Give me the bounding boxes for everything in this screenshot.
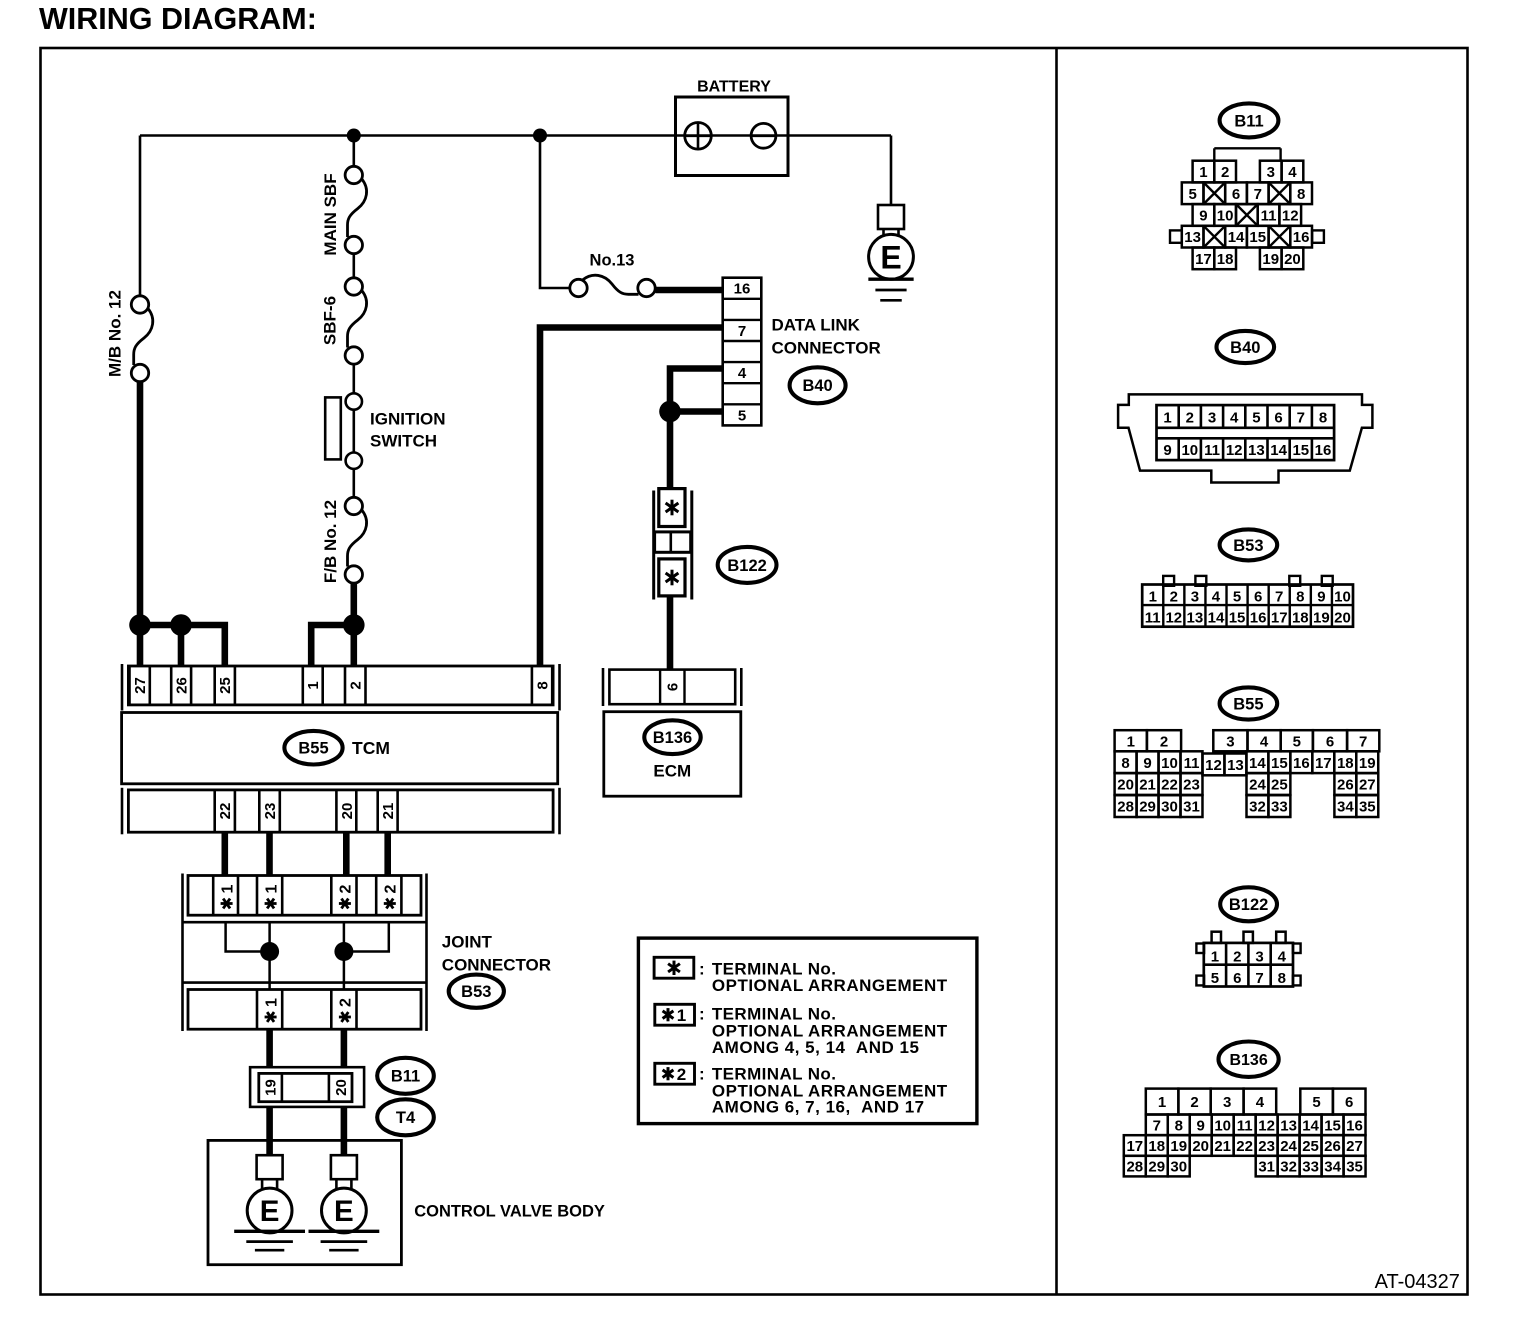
svg-text:34: 34 [1337,799,1354,816]
wire: bus to No.13 fuse [540,136,570,289]
svg-text:8: 8 [1319,409,1327,426]
svg-text:3: 3 [1226,733,1234,750]
svg-text:2: 2 [1186,409,1194,426]
svg-text:7: 7 [738,323,746,340]
svg-text:23: 23 [1258,1138,1275,1155]
fuse F/B No. 12 [321,497,366,583]
fuse No.13 [570,252,655,297]
svg-text:WIRING DIAGRAM:: WIRING DIAGRAM: [39,2,317,36]
svg-text:16: 16 [1315,442,1332,459]
wires: joint connector to B11 (thick) [270,1029,344,1068]
svg-text:26: 26 [1324,1138,1341,1155]
svg-text:16: 16 [1346,1117,1363,1134]
svg-text:7: 7 [1275,588,1283,605]
svg-text:20: 20 [1192,1138,1209,1155]
svg-text:CONNECTOR: CONNECTOR [772,339,881,358]
svg-text:B136: B136 [1229,1052,1267,1069]
connector B136 pin layout [1124,1089,1366,1177]
svg-text:32: 32 [1280,1159,1297,1176]
svg-text:7: 7 [1153,1117,1161,1134]
svg-text:BATTERY: BATTERY [697,79,771,96]
svg-text:8: 8 [1175,1117,1183,1134]
svg-text:27: 27 [1346,1138,1363,1155]
svg-text:18: 18 [1217,251,1234,268]
svg-text:No.13: No.13 [590,252,635,270]
svg-text:2: 2 [1170,588,1178,605]
svg-text:25: 25 [1302,1138,1319,1155]
svg-text:20: 20 [1334,610,1351,627]
svg-text:3: 3 [1255,949,1263,966]
designator B11 (pin layout) [1220,103,1279,137]
node: junction pin27 feed [129,614,151,636]
svg-text:24: 24 [1249,777,1266,794]
node: junction pin2 feed [343,614,365,636]
svg-text:10: 10 [1181,442,1198,459]
designator B136 (pin layout) [1219,1042,1279,1077]
svg-text:16: 16 [1293,229,1310,246]
svg-text:AMONG 4, 5, 14 AND 15: AMONG 4, 5, 14 AND 15 [712,1038,920,1057]
designator B55 (pin layout) [1220,687,1278,719]
svg-text:F/B No. 12: F/B No. 12 [321,500,340,583]
svg-text:21: 21 [1214,1138,1231,1155]
svg-text:8: 8 [1296,588,1304,605]
svg-text:26: 26 [174,677,191,694]
svg-text:12: 12 [1205,757,1222,774]
svg-text:23: 23 [262,803,279,820]
svg-text:B55: B55 [1233,695,1263,713]
svg-text:15: 15 [1271,755,1288,772]
wire: F/B fuse to TCM pins 1/2 (thick) [311,583,354,666]
designator B122 [718,547,777,583]
svg-text:21: 21 [380,803,397,820]
wire: battery positive bus [140,134,891,137]
connector B53 pin layout [1142,576,1353,627]
svg-text:19: 19 [1313,610,1330,627]
svg-text:12: 12 [1165,610,1182,627]
svg-text:TCM: TCM [352,738,390,758]
svg-text:1: 1 [263,998,280,1007]
wires: TCM bottom to joint connector (thick) [225,832,388,876]
svg-text:20: 20 [1117,777,1134,794]
wire: bus to MAIN SBF [352,136,355,167]
svg-text:IGNITION: IGNITION [370,410,446,429]
svg-text:3: 3 [1208,409,1216,426]
svg-text:13: 13 [1280,1117,1297,1134]
svg-text:10: 10 [1214,1117,1231,1134]
svg-text:30: 30 [1170,1159,1187,1176]
svg-text:17: 17 [1195,251,1212,268]
svg-text:20: 20 [333,1079,350,1096]
ground bulb E (battery return) [868,205,913,300]
wire: B122 to ECM pin 6 (thick) [667,596,674,670]
designator B55 [284,731,342,765]
svg-text:28: 28 [1126,1159,1143,1176]
svg-text:B53: B53 [461,983,491,1001]
control valve body box [208,1140,605,1264]
svg-text:31: 31 [1183,799,1200,816]
battery [676,79,789,176]
svg-text:5: 5 [1252,409,1260,426]
connector B11 pin layout [1170,148,1324,269]
svg-text:25: 25 [217,677,234,694]
svg-text:29: 29 [1148,1159,1165,1176]
connector B122 inline [654,489,692,600]
svg-text:5: 5 [1188,186,1196,203]
wire: SBF-6 to ignition switch [352,365,355,394]
svg-text:9: 9 [1143,755,1151,772]
svg-text:DATA LINK: DATA LINK [772,316,861,335]
connector B11/T4 row (pins 19 20) [250,1067,364,1107]
svg-text:32: 32 [1249,799,1266,816]
svg-text:21: 21 [1139,777,1156,794]
svg-text:11: 11 [1184,755,1200,772]
svg-text:11: 11 [1204,442,1220,459]
wire: DLC pin 7 / TCM pin 8 (thick) [540,328,723,667]
svg-text:29: 29 [1139,799,1156,816]
connector B40 pin layout [1118,394,1372,482]
svg-text:23: 23 [1183,777,1200,794]
designator B11 [377,1058,434,1094]
wire: DLC pin 4 to pin 5 / B122 (thick) [670,369,723,412]
designator T4 [377,1099,434,1135]
svg-text::: : [699,1065,705,1084]
svg-text:2: 2 [338,998,355,1007]
svg-text:12: 12 [1226,442,1243,459]
svg-text:6: 6 [1274,409,1282,426]
fuse MAIN SBF [321,166,366,255]
svg-text:E: E [880,239,901,275]
svg-text:B40: B40 [802,377,832,395]
svg-text:5: 5 [1312,1094,1320,1111]
svg-text:3: 3 [1191,588,1199,605]
svg-text:1: 1 [677,1006,686,1025]
svg-text:7: 7 [1254,186,1262,203]
svg-text:35: 35 [1346,1159,1363,1176]
svg-text:B53: B53 [1233,537,1263,555]
svg-text:22: 22 [217,803,234,820]
svg-text:12: 12 [1258,1117,1275,1134]
svg-text:30: 30 [1161,799,1178,816]
svg-text:19: 19 [1359,755,1376,772]
wire: ignition switch to F/B No.12 [352,469,355,497]
svg-text:35: 35 [1359,799,1376,816]
ECM box [604,712,741,797]
svg-text:2: 2 [1190,1094,1198,1111]
svg-text:6: 6 [1232,186,1240,203]
svg-text:13: 13 [1248,442,1265,459]
svg-text:4: 4 [1278,949,1287,966]
svg-text:31: 31 [1258,1159,1275,1176]
svg-text:4: 4 [1256,1094,1265,1111]
svg-text::: : [699,1004,705,1023]
svg-text:TERMINAL No.: TERMINAL No. [712,1004,836,1023]
svg-text:3: 3 [1223,1094,1231,1111]
fuse M/B No. 12 [106,290,153,382]
svg-text:25: 25 [1271,777,1288,794]
designator B136 [644,720,700,754]
wire: battery negative to bulb [890,136,893,206]
svg-text:12: 12 [1282,208,1299,225]
svg-text:2: 2 [1233,949,1241,966]
svg-text:2: 2 [1160,733,1168,750]
designator B40 (pin layout) [1217,331,1275,363]
svg-text:26: 26 [1337,777,1354,794]
svg-text:14: 14 [1302,1117,1319,1134]
svg-text:B40: B40 [1230,339,1260,357]
svg-text:B122: B122 [727,557,766,575]
svg-text:4: 4 [1230,409,1239,426]
svg-text:11: 11 [1261,208,1277,225]
designator B53 (pin layout) [1220,529,1278,560]
svg-text:14: 14 [1228,229,1245,246]
svg-text:B55: B55 [298,740,328,758]
svg-text:E: E [334,1195,354,1228]
node: junction DLC pin5 / B122 [659,401,681,423]
TCM box [122,713,558,784]
svg-text:33: 33 [1302,1159,1319,1176]
svg-text:17: 17 [1126,1138,1143,1155]
svg-text:10: 10 [1161,755,1178,772]
drawing number AT-04327 [1375,1271,1460,1293]
svg-text:1: 1 [1127,733,1135,750]
svg-text:JOINT: JOINT [442,933,493,952]
svg-text:2: 2 [338,884,355,893]
svg-text:20: 20 [1284,251,1301,268]
svg-text:1: 1 [1149,588,1157,605]
joint connector body + links [183,874,427,1032]
connector B122 pin layout [1196,932,1300,988]
svg-text:9: 9 [1197,1117,1205,1134]
ground bulb E (solenoid 2) [309,1155,380,1250]
svg-text:4: 4 [1212,588,1221,605]
svg-text:AMONG 6, 7, 16, AND 17: AMONG 6, 7, 16, AND 17 [712,1098,925,1117]
svg-text::: : [699,960,705,979]
svg-text:6: 6 [1326,733,1334,750]
svg-text:6: 6 [1345,1094,1353,1111]
connector B55 TCM top row (pins 27 26 25 1 2 8) [122,664,560,711]
connector B53 joint connector top row [188,876,421,916]
svg-text:27: 27 [132,677,149,694]
svg-text:ECM: ECM [653,762,691,781]
wire: DLC junction to B122 (thick) [667,412,674,490]
svg-text:13: 13 [1227,757,1244,774]
svg-text:27: 27 [1359,777,1376,794]
svg-text:34: 34 [1324,1159,1341,1176]
connector B40 data link connector [723,278,762,426]
wire: bus to M/B No.12 fuse [139,136,142,296]
svg-text:B122: B122 [1229,896,1268,914]
svg-text:8: 8 [1278,970,1286,987]
svg-text:SBF-6: SBF-6 [321,296,340,345]
svg-text:1: 1 [305,681,322,689]
svg-text:6: 6 [1233,970,1241,987]
svg-text:18: 18 [1337,755,1354,772]
svg-text:MAIN SBF: MAIN SBF [321,173,340,255]
svg-text:1: 1 [1211,949,1219,966]
svg-text:5: 5 [738,407,746,424]
title [39,2,317,36]
svg-text:14: 14 [1208,610,1225,627]
svg-text:17: 17 [1315,755,1332,772]
svg-text:11: 11 [1237,1117,1253,1134]
svg-text:AT-04327: AT-04327 [1375,1271,1460,1293]
svg-text:19: 19 [1170,1138,1187,1155]
svg-text:5: 5 [1211,970,1219,987]
svg-text:6: 6 [665,683,682,691]
svg-text:7: 7 [1255,970,1263,987]
svg-text:7: 7 [1359,733,1367,750]
connector B55 pin layout [1115,730,1380,817]
svg-text:CONTROL VALVE BODY: CONTROL VALVE BODY [414,1203,605,1221]
svg-text:M/B No. 12: M/B No. 12 [106,290,125,377]
svg-text:CONNECTOR: CONNECTOR [442,956,551,975]
svg-text:5: 5 [1233,588,1241,605]
svg-text:11: 11 [1145,610,1161,627]
svg-text:14: 14 [1249,755,1266,772]
svg-text:15: 15 [1292,442,1309,459]
designator B40 [790,367,846,403]
svg-text:T4: T4 [396,1109,416,1127]
svg-text:18: 18 [1292,610,1309,627]
label DATA LINK CONNECTOR [772,316,881,358]
svg-text:3: 3 [1267,164,1275,181]
svg-text:15: 15 [1229,610,1246,627]
svg-text:6: 6 [1254,588,1262,605]
svg-text:5: 5 [1293,733,1301,750]
svg-text:1: 1 [263,884,280,893]
svg-text:E: E [260,1195,280,1228]
svg-text:33: 33 [1271,799,1288,816]
svg-text:4: 4 [738,365,747,382]
svg-text:13: 13 [1184,229,1201,246]
ground bulb E (solenoid 1) [234,1155,305,1250]
svg-text:SWITCH: SWITCH [370,432,437,451]
svg-text:18: 18 [1148,1138,1165,1155]
label JOINT CONNECTOR [442,933,551,975]
connector B53 joint connector bottom row [188,990,421,1030]
wire: M/B fuse to TCM pin 27 (thick) [137,382,144,667]
svg-text:4: 4 [1260,733,1269,750]
svg-text:2: 2 [1221,164,1229,181]
svg-text:17: 17 [1271,610,1288,627]
svg-text:1: 1 [1163,409,1171,426]
svg-text:1: 1 [1199,164,1207,181]
svg-text:15: 15 [1324,1117,1341,1134]
svg-text:20: 20 [339,803,356,820]
svg-text:10: 10 [1217,208,1234,225]
svg-text:2: 2 [677,1065,686,1084]
svg-text:28: 28 [1117,799,1134,816]
svg-text:22: 22 [1161,777,1178,794]
svg-text:OPTIONAL ARRANGEMENT: OPTIONAL ARRANGEMENT [712,976,948,995]
svg-text:13: 13 [1187,610,1204,627]
svg-text:1: 1 [219,884,236,893]
node: bus junction at No.13 branch [533,129,547,143]
node: junction pin26 feed [170,614,192,636]
fuse SBF-6 [321,278,367,364]
svg-text:16: 16 [1293,755,1310,772]
designator B122 (pin layout) [1220,887,1277,921]
wire: feed bus to pins 26/25 (thick) [137,625,225,666]
panel divider [1055,48,1058,1295]
svg-text:B11: B11 [1234,112,1263,130]
svg-text:10: 10 [1334,588,1351,605]
svg-text:1: 1 [1158,1094,1166,1111]
node: bus junction at MAIN SBF [347,129,361,143]
connector B55 TCM bottom row (pins 22 23 20 21) [122,788,560,835]
svg-text:2: 2 [348,681,365,689]
svg-text:16: 16 [734,281,751,298]
legend box [638,938,977,1124]
designator B53 [449,975,504,1008]
svg-text:9: 9 [1199,208,1207,225]
svg-text:8: 8 [1297,186,1305,203]
svg-text:2: 2 [383,884,400,893]
svg-text:9: 9 [1317,588,1325,605]
svg-text:4: 4 [1288,164,1297,181]
svg-text:B11: B11 [391,1068,420,1086]
svg-text:16: 16 [1250,610,1267,627]
wires: B11 to control valve body (thick) [270,1107,344,1156]
svg-text:9: 9 [1163,442,1171,459]
svg-text:15: 15 [1249,229,1266,246]
svg-text:8: 8 [1121,755,1129,772]
wire: MAIN SBF to SBF-6 [352,254,355,278]
svg-text:19: 19 [1262,251,1279,268]
connector ECM pin row [603,668,741,706]
ignition switch [325,393,445,469]
svg-text:B136: B136 [653,729,692,747]
wire: No.13 to DLC pin 16 (thick) [656,287,724,294]
svg-text:24: 24 [1280,1138,1297,1155]
svg-text:8: 8 [534,681,551,689]
svg-text:22: 22 [1236,1138,1253,1155]
svg-text:19: 19 [263,1079,280,1096]
svg-text:7: 7 [1297,409,1305,426]
svg-text:14: 14 [1270,442,1287,459]
